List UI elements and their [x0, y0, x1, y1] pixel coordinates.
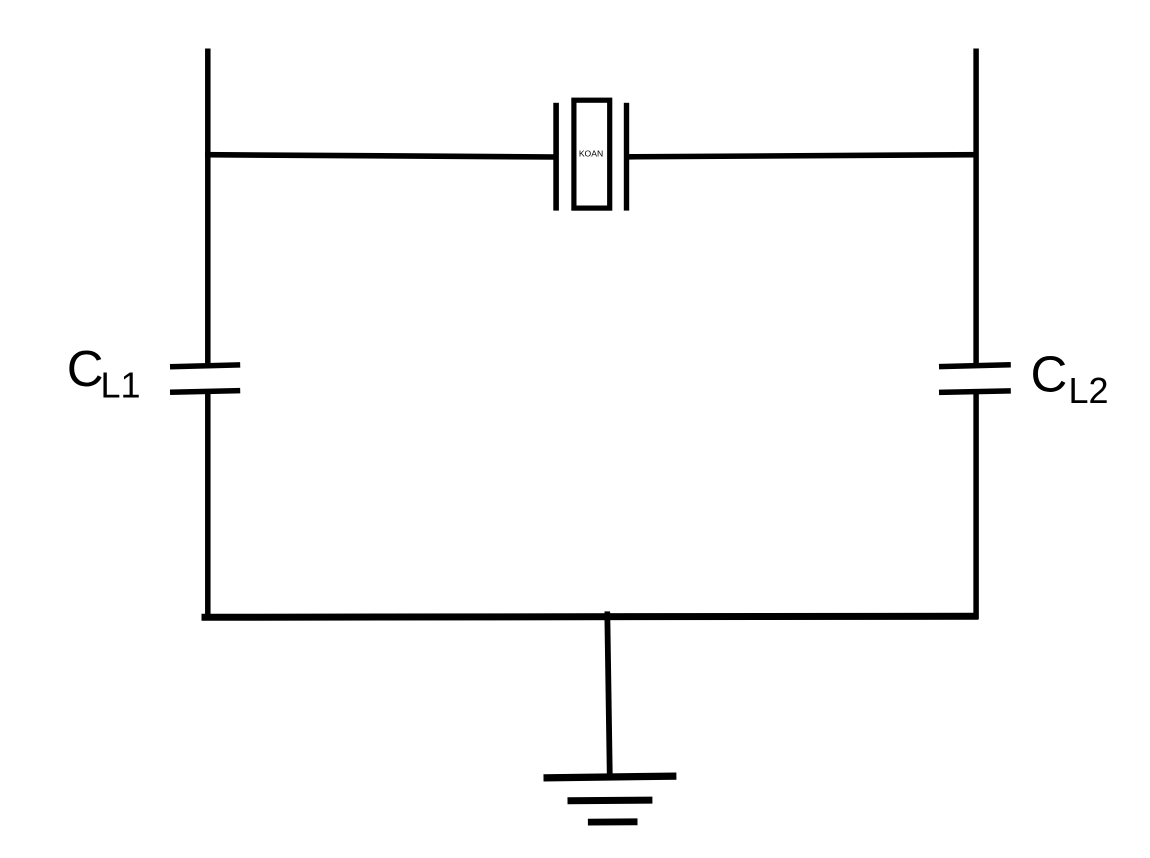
- ground symbol: [544, 776, 677, 822]
- wire: bottom horizontal ground net: [202, 616, 979, 617]
- wire: ground stem: [607, 613, 610, 778]
- svg-text:C: C: [1031, 346, 1068, 403]
- junction: ground stem to bottom wire: [605, 611, 611, 617]
- label CL2: [1031, 346, 1109, 412]
- svg-text:L2: L2: [1069, 370, 1109, 411]
- wire: left rail upper segment (node XTAL1 to CL1 top plate): [205, 49, 211, 364]
- crystal Y1 (KOAN): [553, 100, 629, 210]
- wire: left rail lower segment (CL1 bottom plate to ground net): [205, 391, 211, 619]
- wire: right rail lower segment (CL2 bottom plate to ground net): [973, 392, 979, 619]
- svg-text:L1: L1: [101, 365, 141, 406]
- label CL1: [67, 340, 141, 406]
- svg-text:KOAN: KOAN: [579, 149, 603, 159]
- wire: right rail upper segment (node XTAL2 to CL2 top plate): [973, 49, 979, 364]
- capacitor CL2: [939, 365, 1011, 393]
- wire: top horizontal right segment (crystal to right rail): [628, 155, 978, 157]
- capacitor CL1: [170, 365, 240, 392]
- wire: top horizontal left segment (left rail to crystal): [205, 155, 556, 157]
- svg-text:C: C: [67, 340, 104, 397]
